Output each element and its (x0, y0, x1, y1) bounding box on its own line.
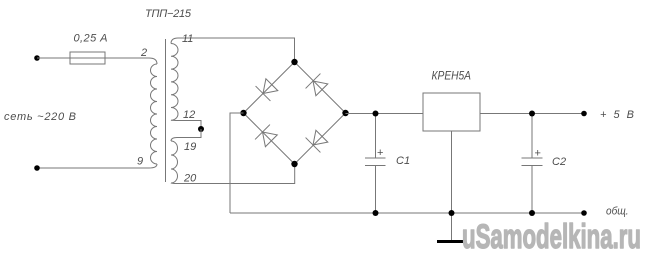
svg-text:С1: С1 (396, 155, 410, 167)
bottom rail (common) (230, 212, 584, 214)
input terminal top (L) (34, 55, 40, 61)
regulator ground pin (451, 131, 453, 240)
svg-text:11: 11 (182, 33, 193, 45)
transformer T1 primary winding (pins 2-9) (151, 64, 158, 164)
diode VD3 (bottom-left arm) (255, 125, 279, 149)
svg-text:ТПП−215: ТПП−215 (145, 8, 192, 20)
fuse FU1 0,25 A (70, 52, 105, 64)
transformer T1 secondary winding I (pins 11-12) (171, 44, 178, 121)
svg-text:С2: С2 (552, 156, 566, 168)
svg-text:общ.: общ. (606, 206, 629, 218)
wire fuse to transformer pin 2 (105, 58, 157, 64)
bridge corner dot bottom (291, 161, 297, 167)
svg-text:12: 12 (183, 109, 195, 121)
junction dot C2 top (529, 111, 535, 117)
svg-text:0,25 А: 0,25 А (74, 33, 108, 45)
junction dot C1 bottom (373, 210, 379, 216)
bridge corner dot top (291, 59, 297, 65)
top rail (+) (346, 113, 585, 115)
wire pin 12 to junction (171, 120, 201, 129)
input terminal bottom (L) (34, 165, 40, 171)
svg-text:uSamodelkina.ru: uSamodelkina.ru (462, 218, 641, 256)
bridge corner dot left (240, 110, 246, 116)
bridge edge bottom-right (295, 113, 346, 164)
bridge edge bottom-left (244, 113, 295, 164)
wire junction to pin 19 (171, 129, 201, 141)
output terminal +5V (581, 111, 587, 117)
svg-text:+: + (535, 148, 541, 160)
svg-text:КРЕН5А: КРЕН5А (432, 69, 472, 83)
svg-text:+ 5 В: + 5 В (600, 109, 634, 121)
svg-text:9: 9 (137, 156, 143, 168)
regulator U1 KREN5A box (423, 93, 480, 131)
wire terminal to fuse (37, 57, 70, 59)
capacitor C1 leads (375, 114, 377, 159)
diode VD1 (top-left arm) (256, 77, 280, 101)
ground (437, 240, 465, 243)
svg-text:19: 19 (184, 141, 196, 153)
transformer T1 secondary winding II (pins 19-20) (171, 141, 178, 183)
svg-text:сеть ~220 В: сеть ~220 В (4, 111, 76, 123)
transformer core (165, 39, 167, 182)
diode VD2 (top-right arm) (306, 74, 330, 98)
bridge edge top-left (244, 62, 295, 113)
svg-text:+: + (377, 147, 383, 159)
diode VD4 (bottom-right arm) (306, 129, 330, 153)
svg-text:20: 20 (183, 173, 197, 185)
wire pin 11 to bridge top corner (171, 38, 295, 62)
capacitor C2 plates (522, 157, 543, 159)
output terminal common (581, 210, 587, 216)
svg-text:2: 2 (140, 47, 147, 59)
junction dot C2 bottom (529, 210, 535, 216)
wire pin 20 to bridge bottom corner (171, 164, 295, 184)
bridge corner dot right (342, 110, 348, 116)
junction dot pins 12-19 (198, 126, 204, 132)
junction dot regulator/bottom rail (449, 210, 455, 216)
capacitor C1 plates (365, 157, 386, 159)
wire bridge left corner to bottom rail (230, 113, 244, 213)
bridge edge top-right (295, 62, 346, 113)
junction dot C1 top (373, 111, 379, 117)
wire transformer pin 9 to lower input terminal (37, 164, 157, 168)
capacitor C2 leads (531, 114, 533, 159)
